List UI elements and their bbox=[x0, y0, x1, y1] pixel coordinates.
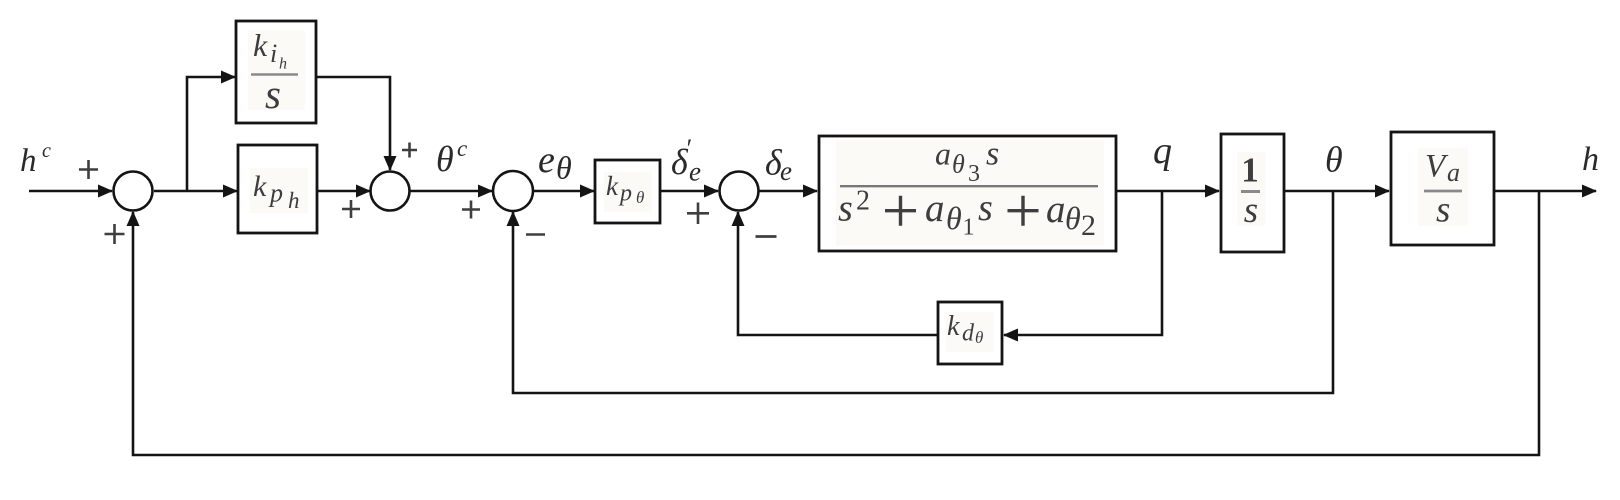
svg-text:i: i bbox=[270, 39, 277, 68]
svg-text:a: a bbox=[1046, 188, 1066, 231]
svg-text:a: a bbox=[925, 187, 945, 230]
svg-text:θ: θ bbox=[975, 328, 983, 347]
svg-text:k: k bbox=[253, 27, 268, 63]
svg-text:q: q bbox=[1153, 130, 1172, 172]
svg-text:p: p bbox=[618, 181, 632, 207]
svg-text:e: e bbox=[780, 156, 792, 186]
svg-text:a: a bbox=[935, 136, 951, 172]
svg-text:s: s bbox=[1436, 190, 1450, 231]
svg-text:k: k bbox=[606, 171, 619, 201]
svg-text:p: p bbox=[268, 179, 283, 208]
svg-text:h: h bbox=[20, 143, 37, 179]
svg-text:e: e bbox=[689, 157, 701, 187]
svg-text:s: s bbox=[265, 71, 281, 117]
svg-text:θ: θ bbox=[1065, 200, 1081, 236]
svg-text:1: 1 bbox=[1241, 151, 1259, 190]
svg-text:θ: θ bbox=[946, 200, 962, 236]
svg-text:3: 3 bbox=[968, 161, 980, 187]
svg-text:h: h bbox=[288, 188, 300, 213]
svg-text:c: c bbox=[42, 140, 51, 162]
svg-text:s: s bbox=[1244, 190, 1258, 231]
svg-text:h: h bbox=[1582, 141, 1599, 178]
svg-text:θ: θ bbox=[1325, 140, 1343, 180]
svg-text:k: k bbox=[947, 311, 960, 342]
svg-text:s: s bbox=[978, 187, 993, 229]
svg-text:k: k bbox=[253, 170, 267, 203]
svg-text:θ: θ bbox=[636, 188, 644, 207]
svg-text:s: s bbox=[838, 188, 853, 230]
svg-text:2: 2 bbox=[856, 186, 870, 217]
svg-text:θ: θ bbox=[556, 150, 572, 186]
svg-text:d: d bbox=[962, 321, 975, 347]
svg-text:θ: θ bbox=[436, 139, 454, 179]
svg-text:1: 1 bbox=[963, 215, 975, 241]
svg-text:2: 2 bbox=[1081, 209, 1096, 242]
svg-text:e: e bbox=[538, 139, 555, 181]
svg-text:c: c bbox=[457, 136, 467, 161]
svg-text:h: h bbox=[279, 56, 287, 73]
svg-text:a: a bbox=[1447, 158, 1460, 187]
svg-text:s: s bbox=[986, 136, 999, 173]
svg-text:θ: θ bbox=[952, 150, 965, 179]
